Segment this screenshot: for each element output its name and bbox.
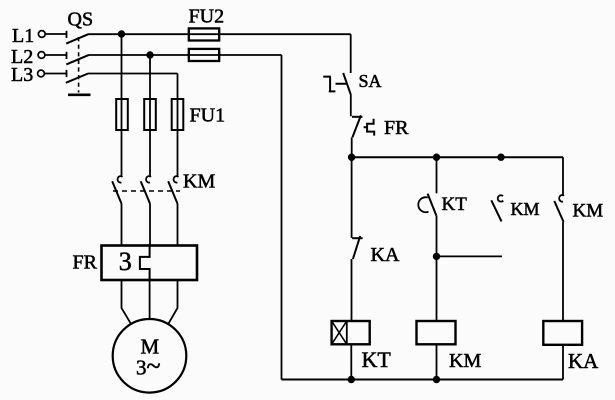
junction node latch [433, 253, 440, 260]
svg-text:FU2: FU2 [189, 6, 225, 28]
wire L1 terminal to QS [45, 33, 66, 35]
wire contact2 to FR box [149, 204, 151, 246]
FR heater element symbol [140, 246, 150, 281]
contactor KM main contact 1 fixed hook [118, 176, 123, 182]
svg-text:KT: KT [362, 347, 392, 372]
svg-text:3: 3 [119, 247, 132, 276]
switch SA manual actuator [323, 77, 346, 92]
junction node bus C [497, 154, 504, 161]
motor M circle [113, 319, 187, 393]
junction node bottom A [348, 376, 355, 383]
svg-text:KM: KM [511, 199, 540, 219]
svg-text:KM: KM [573, 200, 604, 221]
wire L1 from QS to FU2 and right to SA drop [88, 33, 351, 35]
contactor KM right contact hook [559, 195, 564, 202]
disconnect switch QS pole 3 blade [66, 74, 88, 83]
disconnect switch QS pole 2 blade [66, 55, 88, 64]
junction node bus B [433, 154, 440, 161]
junction node bus A [348, 154, 355, 161]
wire FR box to motor left [122, 280, 132, 325]
KT contact blade [428, 194, 437, 216]
wire KA coil to bottom bus [562, 345, 564, 380]
wire KM contact to KA coil [562, 222, 564, 321]
svg-text:QS: QS [68, 8, 94, 30]
svg-text:FR: FR [73, 252, 98, 274]
QS mechanical linkage dashed line [78, 37, 80, 93]
wire KT coil to bottom bus [350, 344, 352, 379]
terminal L3 [38, 70, 45, 77]
contactor KM main contact 2 fixed hook [146, 176, 151, 182]
wire bus corner to KM contact right [562, 157, 564, 195]
fuse FU1 element a [116, 99, 128, 130]
svg-text:KA: KA [371, 244, 400, 266]
wire FR contact to control bus [351, 137, 353, 157]
junction node on L2 [146, 51, 153, 58]
svg-text:FR: FR [384, 117, 409, 139]
switch SA blade [343, 73, 351, 95]
FR contact blade [352, 115, 361, 137]
wire L2 from QS through FU2 to right drop [88, 54, 281, 56]
svg-text:KT: KT [442, 194, 468, 215]
svg-text:L1: L1 [12, 25, 34, 47]
fuse FU2 upper element [189, 28, 219, 40]
terminal L1 [38, 31, 45, 38]
KM right contact blade [554, 201, 563, 222]
wire L2 phase drop to FU1 [149, 55, 151, 176]
wire L2 terminal to QS [45, 54, 66, 56]
disconnect switch QS pole 1 fixed contact [66, 31, 68, 38]
time relay KT coil [332, 321, 370, 344]
KT coil X mark [332, 321, 347, 344]
wire FR box to motor right [168, 280, 178, 325]
svg-text:L3: L3 [11, 64, 33, 86]
svg-text:FU1: FU1 [190, 105, 226, 127]
wire KM coil to bottom bus [436, 344, 438, 379]
wire contact3 to FR box [177, 204, 179, 246]
wire SA to FR contact [350, 95, 352, 117]
svg-text:KM: KM [183, 171, 215, 193]
relay KA contact blade [353, 236, 360, 259]
KT coil divider [346, 321, 348, 344]
disconnect switch QS pole 3 fixed contact [66, 70, 68, 77]
fuse FU2 lower element [189, 49, 219, 61]
wire bus to KT contact [436, 157, 438, 193]
relay KA contact bar [352, 237, 362, 239]
wire L3 from QS to FU1 drop [88, 73, 178, 75]
wire KT contact to KM coil [436, 216, 438, 321]
contactor KM main contact 3 blade [168, 181, 177, 203]
wire KA contact to KT coil [351, 259, 353, 321]
contactor KM coil [417, 321, 456, 344]
time relay KT delayed contact arc [418, 197, 428, 212]
contactor KM main contact 1 blade [112, 181, 121, 203]
contactor KM main contact 2 blade [141, 181, 150, 203]
disconnect switch QS pole 1 blade [66, 34, 88, 43]
QS handle bar [68, 94, 91, 97]
junction node bottom B [433, 376, 440, 383]
KM latch contact blade [491, 200, 501, 221]
wire L1 drop to SA [350, 34, 352, 73]
junction node on L1 [118, 30, 125, 37]
contactor KM main contact 3 fixed hook [174, 176, 179, 182]
svg-text:KM: KM [449, 350, 481, 372]
wire latch connector [437, 255, 503, 257]
svg-text:3~: 3~ [136, 352, 161, 381]
bottom bus [282, 379, 564, 381]
wire FR box to motor middle [149, 280, 151, 319]
terminal L2 [38, 52, 45, 59]
wire bus to KA contact [351, 157, 353, 238]
fuse FU1 element c [172, 99, 184, 130]
fuse FU1 element b [144, 99, 156, 130]
wire contact1 to FR box [121, 204, 123, 246]
wire L3 terminal to QS [45, 73, 67, 75]
svg-text:SA: SA [359, 71, 382, 91]
control bus top [352, 156, 563, 158]
svg-text:KA: KA [568, 349, 599, 373]
disconnect switch QS pole 2 fixed contact [66, 52, 68, 59]
wire L3 phase drop to FU1 [177, 74, 179, 177]
relay KA coil [543, 321, 582, 345]
wire L1 phase drop to FU1 [121, 34, 123, 176]
thermal relay FR heater box [102, 246, 198, 281]
left control wire FU2 down [281, 55, 283, 380]
contactor KM latch contact hook [498, 195, 504, 201]
KM main contacts linkage dashed line [113, 190, 180, 192]
FR contact thermal element symbol [364, 119, 375, 136]
thermal relay FR NC contact bar [352, 116, 362, 118]
